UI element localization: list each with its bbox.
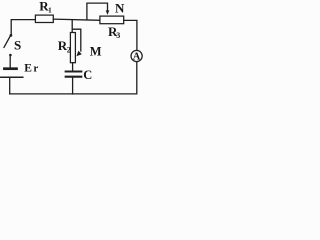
resistor R1 <box>35 15 53 22</box>
switch S upper terminal dot <box>10 34 13 37</box>
wire: R3 right lead, right rail down to ammeter <box>124 20 137 50</box>
svg-text:M: M <box>90 45 102 59</box>
wire: riser and top bypass to R3 wiper <box>87 3 108 20</box>
switch S lower terminal dot <box>9 54 12 57</box>
capacitor C top plate <box>66 70 82 72</box>
rheostat R3 <box>100 16 124 24</box>
wire: left rail, top-left corner to switch top <box>11 20 35 35</box>
wire: switch bottom terminal to battery top plate <box>9 55 11 67</box>
wire: branch from R2 top node to wiper M <box>72 29 81 51</box>
capacitor C bottom plate <box>66 76 82 78</box>
svg-text:2: 2 <box>67 45 71 54</box>
svg-text:N: N <box>115 1 125 16</box>
svg-text:A: A <box>133 52 141 63</box>
battery E r long thin plate <box>1 76 23 78</box>
ammeter A circle <box>131 50 142 61</box>
svg-text:E: E <box>24 63 32 75</box>
wiper arrow M on R2 <box>76 51 81 57</box>
wire: R2 bottom to capacitor top plate <box>72 63 74 71</box>
svg-text:S: S <box>14 37 21 52</box>
svg-text:C: C <box>83 68 92 82</box>
potentiometer R2 <box>70 33 75 63</box>
svg-text:r: r <box>33 63 38 75</box>
wire: capacitor bottom plate to bottom rail <box>72 78 74 94</box>
wire: middle branch from top rail down to R2 top <box>71 20 73 33</box>
wire: top rail from R1 to R3 <box>53 19 100 20</box>
svg-text:3: 3 <box>116 31 120 40</box>
wiper arrow N on R3 <box>106 10 110 15</box>
wire: right rail below ammeter and bottom rail <box>10 62 137 94</box>
switch S blade <box>4 35 11 47</box>
svg-text:1: 1 <box>48 5 52 14</box>
wire: battery bottom lead to bottom rail <box>9 78 11 94</box>
battery E r short thick plate <box>4 67 16 70</box>
